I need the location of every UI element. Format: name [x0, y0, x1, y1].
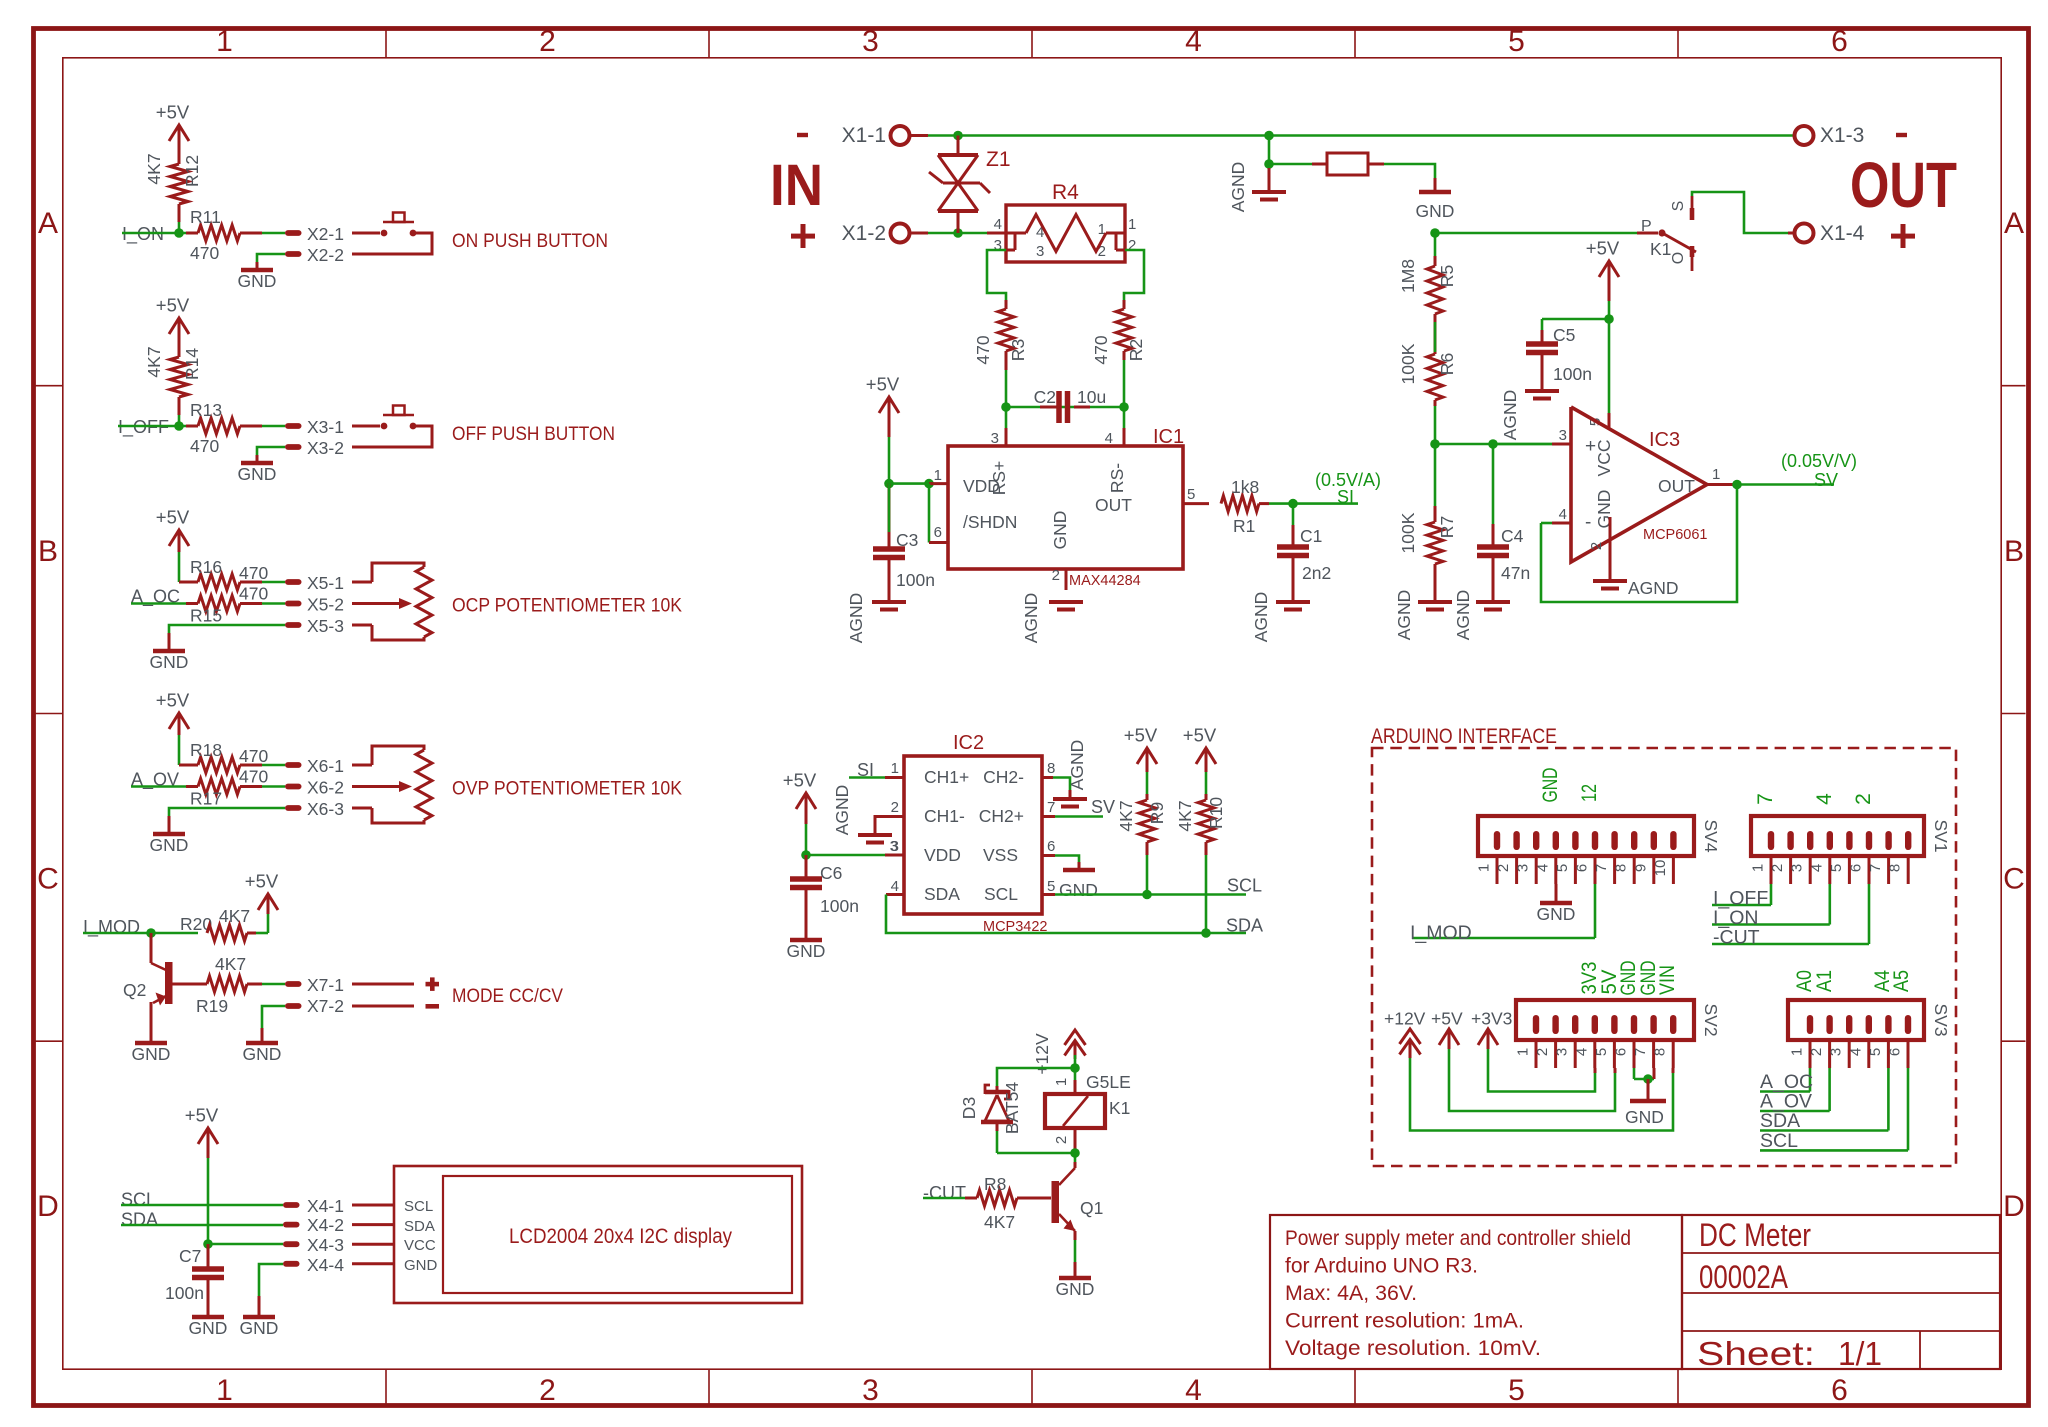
- svg-text:AGND: AGND: [1067, 740, 1087, 791]
- svg-text:AGND: AGND: [1228, 162, 1248, 213]
- svg-text:100n: 100n: [1553, 364, 1592, 384]
- svg-text:AGND: AGND: [832, 785, 852, 836]
- svg-text:Q2: Q2: [123, 980, 146, 1000]
- svg-text:R6: R6: [1437, 353, 1457, 375]
- svg-text:X5-2: X5-2: [307, 595, 344, 615]
- svg-text:AGND: AGND: [1251, 592, 1271, 643]
- svg-text:100K: 100K: [1398, 343, 1418, 384]
- svg-text:+5V: +5V: [185, 1105, 219, 1126]
- svg-text:5: 5: [1508, 1374, 1525, 1407]
- svg-text:X4-3: X4-3: [307, 1235, 344, 1255]
- svg-text:R13: R13: [190, 400, 222, 420]
- svg-text:R4: R4: [1052, 181, 1079, 204]
- svg-text:SV3: SV3: [1931, 1003, 1951, 1036]
- svg-text:K1: K1: [1109, 1098, 1130, 1118]
- svg-text:OUT: OUT: [1095, 495, 1132, 515]
- svg-text:SV: SV: [1091, 797, 1115, 817]
- svg-text:7: 7: [1754, 793, 1777, 805]
- svg-text:8: 8: [1652, 1048, 1669, 1056]
- svg-text:C5: C5: [1553, 325, 1575, 345]
- svg-text:X4-4: X4-4: [307, 1255, 344, 1275]
- svg-text:R2: R2: [1126, 339, 1146, 361]
- svg-text:10u: 10u: [1077, 387, 1106, 407]
- svg-text:GND: GND: [150, 652, 189, 672]
- svg-text:1: 1: [1053, 1078, 1070, 1086]
- svg-text:2: 2: [1495, 864, 1512, 872]
- svg-text:3: 3: [862, 1374, 879, 1407]
- svg-text:C6: C6: [820, 863, 842, 883]
- svg-text:+5V: +5V: [1124, 725, 1158, 746]
- svg-text:VIN: VIN: [1656, 965, 1679, 995]
- svg-text:IC3: IC3: [1649, 429, 1680, 451]
- svg-text:OUT: OUT: [1658, 476, 1695, 496]
- svg-text:X4-1: X4-1: [307, 1196, 344, 1216]
- svg-text:-CUT: -CUT: [1713, 927, 1760, 949]
- svg-text:1: 1: [1789, 1048, 1806, 1056]
- svg-text:3: 3: [1828, 1048, 1845, 1056]
- svg-text:470: 470: [1091, 335, 1111, 364]
- svg-text:Q1: Q1: [1080, 1198, 1103, 1218]
- svg-text:10: 10: [1652, 860, 1669, 877]
- svg-text:R11: R11: [190, 207, 221, 227]
- svg-text:4: 4: [1847, 1048, 1864, 1056]
- svg-text:4: 4: [1559, 506, 1567, 523]
- svg-text:4: 4: [1808, 864, 1825, 872]
- svg-text:CH2-: CH2-: [983, 767, 1024, 787]
- svg-text:I_MOD: I_MOD: [83, 917, 140, 938]
- svg-text:7: 7: [1047, 799, 1055, 816]
- svg-text:D: D: [37, 1190, 59, 1223]
- svg-text:1: 1: [216, 25, 233, 58]
- svg-text:A5: A5: [1890, 970, 1913, 992]
- svg-text:A: A: [2004, 207, 2024, 240]
- svg-text:R15: R15: [190, 606, 222, 626]
- svg-text:C: C: [37, 863, 59, 896]
- svg-text:ON PUSH BUTTON: ON PUSH BUTTON: [452, 231, 608, 252]
- svg-text:4K7: 4K7: [984, 1212, 1015, 1232]
- svg-text:1/1: 1/1: [1838, 1335, 1882, 1372]
- svg-text:2: 2: [1808, 1048, 1825, 1056]
- svg-text:VSS: VSS: [983, 845, 1018, 865]
- svg-text:2: 2: [539, 25, 556, 58]
- svg-text:X2-2: X2-2: [307, 245, 344, 265]
- svg-text:X6-2: X6-2: [307, 778, 344, 798]
- svg-text:470: 470: [190, 436, 219, 456]
- svg-text:2: 2: [539, 1374, 556, 1407]
- svg-text:GND: GND: [787, 941, 826, 961]
- svg-text:8: 8: [1887, 864, 1904, 872]
- svg-text:OCP POTENTIOMETER 10K: OCP POTENTIOMETER 10K: [452, 596, 682, 617]
- svg-text:VDD: VDD: [924, 845, 961, 865]
- svg-text:R3: R3: [1008, 339, 1028, 361]
- svg-text:-CUT: -CUT: [923, 1183, 966, 1203]
- svg-text:GND: GND: [238, 271, 277, 291]
- svg-text:GND: GND: [189, 1318, 228, 1338]
- svg-text:-: -: [1585, 512, 1591, 533]
- svg-text:SDA: SDA: [121, 1210, 158, 1230]
- svg-text:6: 6: [1047, 838, 1055, 855]
- svg-text:6: 6: [1831, 1374, 1848, 1407]
- svg-text:AGND: AGND: [1021, 593, 1041, 644]
- svg-text:100n: 100n: [820, 896, 859, 916]
- svg-text:GND: GND: [1537, 904, 1576, 924]
- svg-text:VCC: VCC: [404, 1237, 436, 1254]
- svg-text:1: 1: [1712, 466, 1720, 483]
- svg-text:R16: R16: [190, 557, 222, 577]
- svg-text:+5V: +5V: [156, 690, 190, 711]
- svg-text:4K7: 4K7: [144, 153, 164, 184]
- svg-text:SDA: SDA: [1760, 1110, 1800, 1132]
- svg-text:X2-1: X2-1: [307, 224, 344, 244]
- svg-text:7: 7: [1593, 864, 1610, 872]
- svg-text:A1: A1: [1813, 970, 1836, 992]
- svg-text:GND: GND: [132, 1044, 171, 1064]
- svg-text:+5V: +5V: [156, 507, 190, 528]
- svg-text:+5V: +5V: [156, 102, 190, 123]
- svg-text:X5-3: X5-3: [307, 616, 344, 636]
- svg-text:100n: 100n: [165, 1283, 204, 1303]
- svg-text:+5V: +5V: [783, 770, 817, 791]
- svg-text:IN: IN: [770, 153, 823, 218]
- svg-text:GND: GND: [1416, 201, 1455, 221]
- svg-text:VCC: VCC: [1594, 440, 1614, 477]
- svg-text:GND: GND: [243, 1044, 282, 1064]
- svg-text:B: B: [2004, 535, 2024, 568]
- svg-text:6: 6: [1613, 1048, 1630, 1056]
- svg-text:R8: R8: [984, 1174, 1006, 1194]
- svg-text:X1-2: X1-2: [842, 222, 886, 245]
- svg-text:SDA: SDA: [924, 884, 960, 904]
- svg-text:+5V: +5V: [156, 295, 190, 316]
- svg-text:X5-1: X5-1: [307, 573, 344, 593]
- svg-text:4: 4: [1185, 1374, 1202, 1407]
- svg-text:R5: R5: [1437, 265, 1457, 287]
- svg-text:470: 470: [239, 767, 268, 787]
- svg-text:C4: C4: [1501, 526, 1524, 546]
- svg-text:X6-1: X6-1: [307, 756, 344, 776]
- svg-text:Sheet:: Sheet:: [1697, 1335, 1815, 1372]
- svg-text:R19: R19: [196, 996, 228, 1016]
- svg-text:5: 5: [1047, 878, 1055, 895]
- svg-text:1: 1: [1476, 864, 1493, 872]
- svg-text:2: 2: [1128, 237, 1136, 254]
- svg-text:SCL: SCL: [404, 1198, 433, 1215]
- svg-text:I_ON: I_ON: [122, 224, 164, 245]
- svg-text:5: 5: [1867, 1048, 1884, 1056]
- svg-text:+5V: +5V: [245, 871, 279, 892]
- svg-text:SCL: SCL: [121, 1190, 156, 1210]
- svg-text:1k8: 1k8: [1231, 477, 1259, 497]
- svg-text:1: 1: [216, 1374, 233, 1407]
- svg-text:7: 7: [1867, 864, 1884, 872]
- svg-text:GND: GND: [238, 464, 277, 484]
- svg-text:2: 2: [891, 799, 899, 816]
- svg-text:OVP POTENTIOMETER 10K: OVP POTENTIOMETER 10K: [452, 779, 682, 800]
- svg-text:6: 6: [1887, 1048, 1904, 1056]
- svg-text:DC Meter: DC Meter: [1699, 1217, 1811, 1253]
- svg-text:X3-2: X3-2: [307, 438, 344, 458]
- svg-text:4: 4: [1534, 864, 1551, 872]
- svg-text:C7: C7: [179, 1246, 201, 1266]
- svg-text:9: 9: [1632, 864, 1649, 872]
- svg-text:SCL: SCL: [1227, 876, 1262, 896]
- svg-text:C1: C1: [1300, 526, 1322, 546]
- svg-text:B: B: [38, 535, 58, 568]
- svg-text:3: 3: [994, 237, 1002, 254]
- svg-text:AGND: AGND: [1500, 390, 1520, 441]
- svg-text:Max: 4A, 36V.: Max: 4A, 36V.: [1285, 1282, 1417, 1305]
- svg-text:3: 3: [1515, 864, 1532, 872]
- svg-text:CH2+: CH2+: [979, 806, 1024, 826]
- svg-text:SDA: SDA: [404, 1218, 435, 1235]
- svg-text:AGND: AGND: [846, 593, 866, 644]
- svg-text:470: 470: [239, 563, 268, 583]
- svg-text:GND: GND: [1050, 511, 1070, 550]
- svg-text:6: 6: [1848, 864, 1865, 872]
- svg-text:X1-4: X1-4: [1820, 222, 1865, 245]
- svg-text:1: 1: [1128, 216, 1136, 233]
- svg-text:RS+: RS+: [989, 461, 1009, 496]
- svg-text:IC1: IC1: [1153, 426, 1184, 448]
- svg-text:+5V: +5V: [1431, 1009, 1463, 1029]
- svg-text:5: 5: [1554, 864, 1571, 872]
- svg-text:2: 2: [1769, 864, 1786, 872]
- svg-text:OFF PUSH BUTTON: OFF PUSH BUTTON: [452, 424, 615, 445]
- svg-text:R14: R14: [182, 348, 202, 380]
- svg-text:1: 1: [934, 467, 942, 484]
- svg-text:2: 2: [1053, 1136, 1070, 1144]
- svg-text:3: 3: [1036, 243, 1044, 260]
- svg-text:1: 1: [1515, 1048, 1532, 1056]
- svg-text:X4-2: X4-2: [307, 1215, 344, 1235]
- svg-text:AGND: AGND: [1453, 590, 1473, 641]
- svg-text:Voltage resolution. 10mV.: Voltage resolution. 10mV.: [1285, 1337, 1541, 1360]
- svg-text:X1-3: X1-3: [1820, 124, 1864, 147]
- svg-text:8: 8: [1613, 864, 1630, 872]
- svg-text:4: 4: [1573, 1048, 1590, 1056]
- svg-text:R7: R7: [1437, 516, 1457, 538]
- svg-text:RS-: RS-: [1107, 463, 1127, 493]
- svg-text:100K: 100K: [1398, 512, 1418, 553]
- svg-text:for Arduino UNO R3.: for Arduino UNO R3.: [1285, 1255, 1478, 1278]
- svg-text:X3-1: X3-1: [307, 417, 344, 437]
- svg-text:Z1: Z1: [986, 148, 1011, 171]
- svg-text:Current resolution: 1mA.: Current resolution: 1mA.: [1285, 1310, 1524, 1333]
- svg-text:CH1-: CH1-: [924, 806, 965, 826]
- svg-text:C: C: [2003, 863, 2025, 896]
- svg-text:2n2: 2n2: [1302, 563, 1331, 583]
- svg-text:ARDUINO INTERFACE: ARDUINO INTERFACE: [1371, 725, 1557, 748]
- svg-text:D: D: [2003, 1190, 2025, 1223]
- svg-text:SDA: SDA: [1226, 916, 1263, 936]
- svg-text:SCL: SCL: [984, 884, 1018, 904]
- svg-text:SV: SV: [1814, 470, 1838, 490]
- svg-text:4K7: 4K7: [219, 906, 250, 926]
- svg-text:X7-2: X7-2: [307, 996, 344, 1016]
- svg-text:R17: R17: [190, 789, 222, 809]
- svg-text:BAT54: BAT54: [1002, 1082, 1022, 1134]
- svg-text:100n: 100n: [896, 570, 935, 590]
- svg-text:3: 3: [891, 838, 899, 855]
- svg-text:G5LE: G5LE: [1086, 1072, 1131, 1092]
- svg-text:IC2: IC2: [953, 732, 984, 754]
- svg-text:4K7: 4K7: [215, 954, 246, 974]
- svg-text:+5V: +5V: [1183, 725, 1217, 746]
- svg-text:R18: R18: [190, 740, 222, 760]
- svg-text:C3: C3: [896, 530, 918, 550]
- svg-text:+12V: +12V: [1384, 1009, 1426, 1029]
- svg-text:D3: D3: [959, 1097, 979, 1119]
- svg-text:5: 5: [1828, 864, 1845, 872]
- svg-text:6: 6: [1574, 864, 1591, 872]
- svg-text:GND: GND: [150, 835, 189, 855]
- svg-text:AGND: AGND: [1628, 578, 1679, 598]
- svg-text:3: 3: [862, 25, 879, 58]
- svg-text:3: 3: [1789, 864, 1806, 872]
- svg-text:I_MOD: I_MOD: [1410, 922, 1472, 944]
- svg-text:4K7: 4K7: [1175, 800, 1195, 831]
- svg-text:+5V: +5V: [866, 374, 900, 395]
- svg-text:SV2: SV2: [1701, 1003, 1721, 1036]
- svg-text:SV1: SV1: [1931, 819, 1951, 852]
- svg-text:GND: GND: [1625, 1107, 1664, 1127]
- svg-text:5: 5: [1593, 1048, 1610, 1056]
- svg-text:X1-1: X1-1: [842, 124, 886, 147]
- svg-text:MCP6061: MCP6061: [1643, 527, 1707, 543]
- svg-text:2: 2: [1052, 567, 1060, 584]
- svg-text:CH1+: CH1+: [924, 767, 969, 787]
- svg-text:GND: GND: [1056, 1279, 1095, 1299]
- svg-text:2: 2: [1852, 793, 1875, 805]
- svg-text:GND: GND: [1059, 880, 1098, 900]
- svg-text:P: P: [1641, 218, 1652, 235]
- svg-text:2: 2: [1588, 542, 1605, 550]
- svg-text:4K7: 4K7: [144, 346, 164, 377]
- svg-text:3: 3: [1559, 427, 1567, 444]
- svg-text:2: 2: [1534, 1048, 1551, 1056]
- svg-text:(0.05V/V): (0.05V/V): [1781, 451, 1857, 471]
- svg-text:MODE CC/CV: MODE CC/CV: [452, 986, 563, 1007]
- svg-text:GND: GND: [1539, 768, 1562, 803]
- svg-text:MAX44284: MAX44284: [1069, 573, 1141, 589]
- svg-text:470: 470: [973, 335, 993, 364]
- svg-text:SCL: SCL: [1760, 1130, 1798, 1152]
- svg-text:S: S: [1670, 201, 1687, 212]
- svg-text:1: 1: [891, 760, 899, 777]
- svg-text:4K7: 4K7: [1116, 800, 1136, 831]
- svg-text:00002A: 00002A: [1699, 1259, 1789, 1295]
- svg-text:470: 470: [239, 746, 268, 766]
- svg-text:4: 4: [891, 878, 899, 895]
- svg-text:AGND: AGND: [1394, 590, 1414, 641]
- svg-text:(0.5V/A): (0.5V/A): [1315, 470, 1381, 490]
- svg-text:C2: C2: [1034, 387, 1056, 407]
- svg-text:470: 470: [190, 243, 219, 263]
- svg-text:6: 6: [1831, 25, 1848, 58]
- svg-text:R10: R10: [1206, 797, 1226, 829]
- svg-text:K1: K1: [1650, 239, 1671, 259]
- svg-text:OUT: OUT: [1850, 149, 1957, 221]
- svg-text:6: 6: [934, 524, 942, 541]
- svg-text:Power supply meter and control: Power supply meter and controller shield: [1285, 1227, 1631, 1250]
- svg-text:8: 8: [1047, 760, 1055, 777]
- svg-text:A: A: [38, 207, 58, 240]
- svg-text:X7-1: X7-1: [307, 975, 344, 995]
- svg-text:R9: R9: [1147, 802, 1167, 824]
- svg-text:5: 5: [1508, 25, 1525, 58]
- svg-text:7: 7: [1632, 1048, 1649, 1056]
- svg-text:SV4: SV4: [1701, 819, 1721, 852]
- svg-text:O: O: [1670, 252, 1687, 264]
- svg-text:5: 5: [1187, 486, 1195, 503]
- svg-text:/SHDN: /SHDN: [963, 512, 1017, 532]
- svg-text:GND: GND: [240, 1318, 279, 1338]
- svg-text:SI: SI: [1337, 487, 1354, 507]
- svg-text:4: 4: [994, 216, 1002, 233]
- svg-text:X6-3: X6-3: [307, 799, 344, 819]
- svg-text:470: 470: [239, 584, 268, 604]
- svg-text:+5V: +5V: [1586, 238, 1620, 259]
- svg-text:I_OFF: I_OFF: [118, 417, 169, 438]
- svg-text:4: 4: [1813, 793, 1836, 805]
- svg-text:47n: 47n: [1501, 563, 1530, 583]
- svg-text:1: 1: [1750, 864, 1767, 872]
- svg-text:4: 4: [1185, 25, 1202, 58]
- svg-text:+3V3: +3V3: [1471, 1009, 1512, 1029]
- svg-text:1M8: 1M8: [1398, 259, 1418, 293]
- svg-text:R1: R1: [1233, 516, 1255, 536]
- svg-text:3: 3: [1554, 1048, 1571, 1056]
- svg-text:R12: R12: [182, 155, 202, 187]
- svg-text:LCD2004 20x4 I2C display: LCD2004 20x4 I2C display: [509, 1225, 732, 1248]
- svg-text:12: 12: [1578, 784, 1601, 802]
- svg-text:GND: GND: [404, 1257, 438, 1274]
